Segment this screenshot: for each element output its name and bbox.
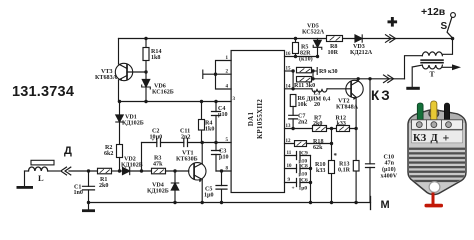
resistor R5 <box>295 39 297 57</box>
svg-text:C8: C8 <box>301 164 308 170</box>
transformer secondary ground <box>412 65 422 87</box>
svg-text:х400V: х400V <box>381 174 398 180</box>
svg-text:КД102Б: КД102Б <box>122 121 144 127</box>
svg-text:3: 3 <box>233 97 236 102</box>
svg-text:6k2: 6k2 <box>104 151 113 157</box>
transistor VT2 <box>346 80 363 97</box>
node VD1 top <box>118 100 121 103</box>
resistor R11 <box>297 77 312 82</box>
connector chevrons input <box>61 167 71 175</box>
svg-text:КТ848А: КТ848А <box>336 105 359 111</box>
wire pin8 <box>216 170 231 172</box>
ground (main) below C1 <box>88 203 90 210</box>
wire C10 vertical <box>369 79 371 203</box>
svg-text:КС522А: КС522А <box>302 30 325 36</box>
IC DA1 box <box>231 51 284 193</box>
capacitor C2 <box>157 139 161 147</box>
resistor R12 <box>337 126 350 132</box>
top shading <box>409 110 465 123</box>
svg-text:М: М <box>381 199 390 211</box>
svg-text:T: T <box>430 70 435 79</box>
svg-text:L: L <box>38 173 44 183</box>
svg-text:1µ0: 1µ0 <box>204 193 214 199</box>
wire top rail +12 <box>119 38 453 40</box>
svg-text:R9 к30: R9 к30 <box>319 69 338 75</box>
diode VD3 <box>355 35 362 42</box>
terminal bar R9 <box>313 68 317 75</box>
inductor L1 <box>312 89 327 92</box>
svg-text:(к10): (к10) <box>299 56 313 63</box>
capacitor C5 <box>221 171 223 203</box>
diode VD4 <box>174 171 176 203</box>
capacitor C3 <box>215 143 217 172</box>
core bar <box>31 160 54 165</box>
resistor R2 <box>117 145 123 158</box>
svg-text:Д: Д <box>64 145 72 157</box>
svg-text:*: * <box>334 152 338 160</box>
svg-text:КД212А: КД212А <box>350 50 373 56</box>
wire VT3 collector vertical <box>118 39 120 64</box>
hole <box>429 182 440 193</box>
svg-text:1k8: 1k8 <box>151 55 160 61</box>
terminal M bar <box>370 197 372 210</box>
resistor R1 <box>98 168 112 174</box>
svg-text:DA1: DA1 <box>247 112 255 127</box>
svg-text:КД102Б: КД102Б <box>147 189 169 195</box>
svg-text:10R: 10R <box>328 50 339 56</box>
svg-text:R11 3k0: R11 3k0 <box>294 83 315 89</box>
svg-text:2n2: 2n2 <box>298 120 307 126</box>
wire green <box>417 103 423 123</box>
node R4 bottom / VT1 collector <box>201 141 204 144</box>
wire black <box>444 103 449 123</box>
wire yellow <box>431 101 437 123</box>
svg-text:+: + <box>292 186 295 192</box>
zener VD5 <box>317 39 319 57</box>
capacitor C1 <box>88 171 90 203</box>
svg-text:C9: C9 <box>301 151 308 157</box>
svg-text:k33: k33 <box>316 168 325 174</box>
label band <box>412 130 463 143</box>
svg-text:µ10: µ10 <box>218 112 228 118</box>
capacitor C7 <box>292 107 294 129</box>
resistor R3 <box>152 168 166 174</box>
svg-text:11: 11 <box>287 151 292 156</box>
wire VT2 emitter / resistor R13 <box>355 97 357 202</box>
svg-text:2n2: 2n2 <box>181 135 190 141</box>
svg-text:Д: Д <box>431 133 439 144</box>
node VD4 top <box>173 169 176 172</box>
terminal stub pin2 <box>203 70 216 79</box>
ground (sensor) <box>24 171 26 186</box>
node R14 top <box>144 37 147 40</box>
wire to VT1 base <box>166 170 189 172</box>
svg-text:1µ0: 1µ0 <box>299 186 308 192</box>
transformer T primary feed <box>442 39 452 55</box>
node R4 top <box>200 100 203 103</box>
svg-text:S: S <box>441 21 448 32</box>
pin12 wire / resistor R18 <box>285 143 332 145</box>
label DA1 <box>247 99 264 139</box>
svg-text:C6: C6 <box>301 178 308 184</box>
svg-text:13: 13 <box>286 124 292 129</box>
resistor R10 <box>329 161 335 174</box>
vertical R10 line <box>331 129 333 203</box>
pin9 wire / capacitor C6 <box>285 182 311 184</box>
connector chevrons mid <box>384 75 394 83</box>
capacitor C4 <box>215 102 217 143</box>
transistor VT3 <box>115 63 132 80</box>
sensor inductor L <box>25 170 29 172</box>
node C5 top <box>220 169 223 172</box>
terminal strip <box>412 120 463 130</box>
svg-text:10: 10 <box>287 164 293 169</box>
diode VD2 <box>123 167 130 174</box>
transistor VT1 <box>189 163 206 180</box>
label plus bold <box>388 20 398 23</box>
svg-text:12: 12 <box>286 139 292 144</box>
svg-text:16: 16 <box>286 52 292 57</box>
svg-text:КЗ: КЗ <box>413 133 427 144</box>
svg-text:+: + <box>152 139 155 144</box>
svg-text:47n: 47n <box>385 161 395 167</box>
resistor R7 <box>313 126 327 132</box>
diode VD1 <box>119 102 121 145</box>
yellow wire grommet <box>429 110 439 118</box>
svg-text:КТ683А: КТ683А <box>95 75 118 81</box>
svg-text:1n0: 1n0 <box>74 190 83 196</box>
wire pin3 horizontal y=101 <box>119 101 232 103</box>
transformer primary <box>422 52 442 56</box>
wire VT1 emitter <box>201 180 203 203</box>
svg-text:КД102Б: КД102Б <box>121 163 143 169</box>
svg-text:+12в: +12в <box>421 6 446 18</box>
svg-text:µ10: µ10 <box>219 155 229 161</box>
switch S <box>451 13 456 18</box>
wire vertical to C2 row <box>141 143 143 172</box>
parallel links R9 R11 <box>293 71 313 89</box>
svg-text:КР1055ХП2: КР1055ХП2 <box>256 99 264 139</box>
resistor R6 <box>290 95 296 107</box>
pin10 wire / capacitor C8 <box>285 168 311 170</box>
node C1 top <box>87 169 90 172</box>
svg-text:0,1R: 0,1R <box>338 168 351 174</box>
svg-text:КЗ: КЗ <box>371 88 391 103</box>
resistor R9 <box>297 67 312 72</box>
pin14 wire <box>285 88 346 90</box>
wire VT3 base <box>127 71 146 73</box>
node VD6 bottom <box>144 100 147 103</box>
pin13 wire <box>285 128 357 130</box>
resistor R14 <box>145 39 147 73</box>
pin15 stub <box>285 70 294 72</box>
svg-text:62k: 62k <box>313 145 323 151</box>
module photo <box>408 101 466 207</box>
resistor R4 <box>201 102 203 143</box>
svg-text:2k0: 2k0 <box>99 183 108 189</box>
svg-text:47k: 47k <box>153 162 163 168</box>
pins 1 2 4 bus <box>216 61 232 90</box>
svg-text:КТ630Б: КТ630Б <box>176 157 198 163</box>
svg-text:+: + <box>443 131 450 145</box>
transformer secondary <box>422 65 442 69</box>
svg-text:20: 20 <box>314 102 320 108</box>
svg-text:10k: 10k <box>298 102 308 108</box>
capacitor C11 <box>184 139 188 147</box>
svg-text:2k0: 2k0 <box>313 121 322 127</box>
zener VD6 <box>145 72 147 102</box>
connector chevrons top <box>386 35 396 43</box>
resistor R8 <box>327 36 343 42</box>
node VT3 base / VD6 <box>144 70 147 73</box>
red ground wire <box>432 193 435 206</box>
bottom bus <box>89 202 371 204</box>
wire VT3 emitter vertical <box>118 81 120 102</box>
svg-text:14: 14 <box>286 84 292 89</box>
node C4 top <box>214 100 217 103</box>
svg-text:КС162Б: КС162Б <box>152 90 174 96</box>
wire C2/C11 row y=142 <box>142 142 232 144</box>
module body <box>408 110 466 195</box>
svg-text:15: 15 <box>286 67 292 72</box>
caps common ground vertical <box>310 156 312 203</box>
node junction C2/R3 <box>140 169 143 172</box>
pin11 wire / capacitor C9 <box>285 155 311 157</box>
pin16 stub <box>285 56 318 58</box>
svg-text:131.3734: 131.3734 <box>12 84 74 100</box>
transformer core <box>420 59 444 61</box>
screws <box>416 122 422 128</box>
HV arrow <box>442 66 452 68</box>
svg-text:1k0: 1k0 <box>205 127 214 133</box>
wire input y=170.5 <box>69 170 98 172</box>
capacitor C10 <box>366 164 375 168</box>
wire VT1 collector <box>201 143 203 164</box>
svg-text:(µ10): (µ10) <box>382 166 396 173</box>
wire VT2 collector <box>357 79 359 81</box>
svg-text:k33: k33 <box>337 121 346 127</box>
wire VT2 collector rail y=78.3 <box>313 78 405 80</box>
node C4 bottom <box>214 141 217 144</box>
node R2 bottom <box>118 169 121 172</box>
